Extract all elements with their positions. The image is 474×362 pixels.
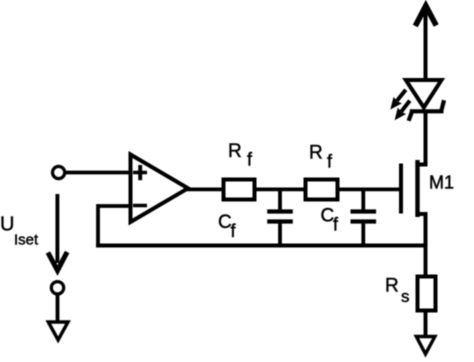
wire: op-amp output to resistor Rf1: [186, 187, 222, 191]
supply arrow (top): [415, 6, 436, 80]
wire: feedback from - input down to bottom rail: [98, 204, 131, 247]
LED emission arrow 1: [390, 90, 406, 110]
label Rs: [385, 276, 410, 307]
wire: Rs to ground: [424, 313, 428, 337]
label Cf2: [321, 206, 340, 235]
wire: Rf2 to MOSFET gate: [340, 187, 400, 191]
ground (right, open triangle): [416, 337, 435, 355]
resistor Rs: [418, 277, 436, 311]
transistor M1: [401, 160, 426, 217]
ground (left, open triangle): [48, 322, 68, 340]
svg-text:Iset: Iset: [14, 232, 39, 249]
input terminal circle (bottom): [51, 282, 63, 294]
svg-text:M1: M1: [429, 173, 454, 193]
op-amp U1: [131, 155, 189, 223]
svg-text:R: R: [385, 276, 399, 297]
svg-text:R: R: [309, 143, 323, 164]
input terminal circle (top): [53, 166, 65, 178]
svg-text:R: R: [228, 141, 242, 162]
label Rf2: [309, 143, 333, 172]
wire: bottom terminal to ground: [56, 296, 60, 323]
wire: rail junction down to Rs: [424, 246, 428, 277]
label Rf1: [228, 141, 253, 170]
wire: drain up to LED: [424, 111, 428, 167]
resistor Rf2: [306, 180, 338, 200]
capacitor Cf2: [351, 189, 377, 247]
resistor Rf1: [224, 180, 255, 200]
wire: source down to rail: [424, 212, 428, 248]
label Cf1: [218, 212, 237, 241]
LED emission arrow 2: [395, 101, 410, 121]
LED D1: [406, 80, 444, 121]
svg-text:U: U: [0, 214, 14, 236]
svg-text:s: s: [401, 287, 410, 306]
wire: Rf1 to Rf2: [257, 187, 306, 191]
voltage arrow U_Iset: [48, 194, 67, 271]
wire: input terminal to op-amp + input: [65, 171, 132, 175]
wire: bottom rail: [96, 244, 427, 248]
capacitor Cf1: [267, 189, 293, 247]
label U_Iset: [0, 214, 39, 249]
